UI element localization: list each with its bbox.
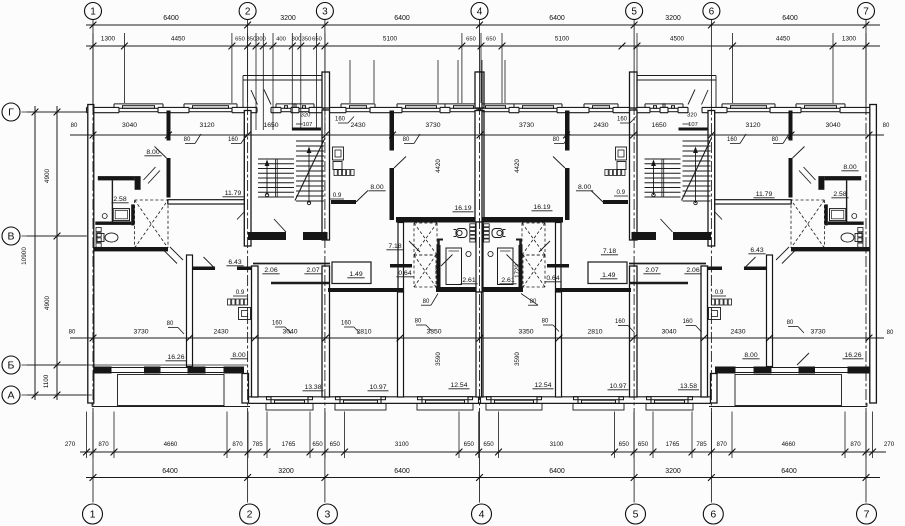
ventilation shaft stack on axis 3	[322, 72, 330, 108]
svg-text:1: 1	[90, 509, 96, 521]
bathroom inner wall centre unit	[437, 245, 441, 287]
svg-text:1300: 1300	[842, 36, 857, 43]
ventilation shaft stack on axis 4	[477, 72, 484, 108]
svg-text:1.49: 1.49	[349, 271, 362, 278]
svg-text:3590: 3590	[435, 352, 442, 366]
outer wall left side	[88, 105, 94, 404]
svg-text:160: 160	[341, 321, 352, 327]
kitchen top wall south-west	[192, 267, 215, 271]
axis circles bottom	[83, 504, 103, 524]
svg-text:870: 870	[850, 441, 861, 448]
bathroom bottom wall centre unit	[436, 287, 477, 292]
svg-text:2.61: 2.61	[501, 277, 514, 284]
svg-text:650: 650	[312, 441, 323, 448]
svg-text:3040: 3040	[122, 122, 137, 129]
ventilation shaft dashed box west unit	[135, 199, 168, 201]
svg-text:107: 107	[688, 122, 698, 128]
svg-text:4: 4	[479, 509, 485, 521]
svg-text:80: 80	[772, 137, 779, 143]
svg-text:10.97: 10.97	[369, 384, 386, 391]
svg-text:3120: 3120	[199, 122, 214, 129]
bathroom east wall	[131, 204, 134, 225]
svg-text:400: 400	[276, 37, 286, 43]
svg-text:А: А	[7, 390, 14, 402]
door kitchen south-west	[204, 257, 216, 269]
svg-text:80: 80	[883, 123, 890, 129]
stairwell interior right (translated)	[645, 124, 712, 232]
svg-text:2430: 2430	[730, 329, 745, 336]
step wall down at axis 2	[242, 374, 249, 404]
door bathroom west unit	[148, 171, 160, 184]
svg-text:3040: 3040	[661, 329, 676, 336]
svg-text:13.58: 13.58	[680, 383, 697, 390]
svg-text:12.54: 12.54	[450, 382, 467, 389]
svg-text:270: 270	[65, 441, 76, 448]
svg-text:1720: 1720	[435, 264, 442, 278]
svg-text:6.43: 6.43	[228, 259, 241, 266]
svg-text:650: 650	[638, 441, 649, 448]
svg-text:3200: 3200	[665, 468, 681, 475]
svg-text:11.79: 11.79	[225, 190, 242, 197]
wall between kitchen and living room centre unit	[390, 111, 395, 151]
svg-text:870: 870	[98, 441, 109, 448]
bathroom inner wall horizontal	[95, 222, 131, 225]
svg-text:320: 320	[687, 113, 697, 119]
svg-text:4500: 4500	[670, 36, 685, 43]
balcony door swing right unit	[797, 353, 809, 365]
corridor wall lower thin	[271, 282, 330, 285]
stairwell interior left	[258, 124, 325, 232]
svg-text:0.9: 0.9	[715, 289, 724, 296]
svg-text:2: 2	[247, 509, 253, 521]
svg-text:160: 160	[615, 319, 626, 325]
svg-text:В: В	[7, 231, 14, 243]
stair flight 1 treads	[258, 158, 294, 160]
svg-text:1765: 1765	[282, 441, 296, 448]
svg-text:2430: 2430	[213, 329, 228, 336]
stair landing wall with window 320	[292, 128, 321, 131]
svg-text:160: 160	[272, 321, 283, 327]
svg-text:13.38: 13.38	[304, 384, 321, 391]
svg-text:4450: 4450	[776, 36, 791, 43]
svg-text:1300: 1300	[101, 36, 116, 43]
axis grid vertical lines 1-7	[92, 20, 94, 105]
svg-text:4900: 4900	[44, 295, 51, 310]
svg-text:12.54: 12.54	[534, 382, 551, 389]
stair flight 2 arrow	[308, 150, 310, 203]
right edge 80 extension	[871, 134, 880, 136]
svg-text:Г: Г	[8, 107, 14, 119]
balcony slabs below south windows	[266, 404, 313, 411]
room 3120 bottom wall	[168, 200, 248, 204]
axis circles left	[2, 103, 20, 121]
stairwell south wall	[248, 232, 286, 240]
svg-text:6400: 6400	[781, 468, 797, 475]
svg-text:6400: 6400	[782, 15, 798, 22]
svg-text:3730: 3730	[425, 122, 440, 129]
svg-text:3350: 3350	[426, 329, 441, 336]
dimension row top level 2 line and ticks	[86, 45, 880, 47]
svg-text:3200: 3200	[665, 15, 681, 22]
kitchen stove centre unit	[333, 147, 344, 160]
left dimension inner line 4900/4900/1100	[56, 106, 58, 400]
svg-text:80: 80	[787, 320, 794, 326]
outer wall right side	[870, 105, 877, 404]
svg-text:3100: 3100	[550, 441, 564, 448]
svg-text:16.19: 16.19	[454, 205, 471, 212]
svg-text:2.06: 2.06	[264, 267, 277, 274]
svg-text:3: 3	[322, 7, 328, 18]
extension lines from row 2 ticks	[92, 33, 94, 103]
svg-text:107: 107	[303, 122, 313, 128]
svg-text:6400: 6400	[163, 15, 179, 22]
svg-text:8.00: 8.00	[146, 149, 159, 156]
interior dimension row A line	[70, 134, 884, 136]
svg-text:2.06: 2.06	[686, 267, 699, 274]
axis circles top	[85, 3, 102, 20]
svg-text:160: 160	[617, 117, 628, 123]
kitchen stove south-west unit	[239, 308, 251, 320]
svg-text:2.58: 2.58	[833, 191, 846, 198]
svg-text:6400: 6400	[162, 468, 178, 475]
svg-text:16.19: 16.19	[533, 204, 550, 211]
svg-text:7: 7	[864, 509, 870, 521]
corridor door swing near stair	[237, 209, 248, 220]
dimension row bottom level 3	[80, 451, 886, 453]
svg-text:8.00: 8.00	[232, 352, 245, 359]
svg-text:350: 350	[302, 37, 312, 43]
svg-text:1650: 1650	[651, 122, 666, 129]
svg-text:2.07: 2.07	[645, 267, 658, 274]
bathroom west wall centre unit	[398, 223, 404, 293]
svg-text:3590: 3590	[514, 352, 521, 366]
svg-text:Б: Б	[8, 360, 15, 372]
svg-text:3: 3	[324, 509, 330, 521]
toilet centre unit	[456, 229, 467, 238]
svg-text:870: 870	[717, 441, 728, 448]
bathtub west unit	[113, 209, 129, 221]
interior dimension row B line	[70, 337, 884, 339]
svg-text:0.9: 0.9	[236, 289, 245, 296]
svg-text:3120: 3120	[745, 122, 760, 129]
svg-text:3730: 3730	[519, 122, 534, 129]
svg-text:4660: 4660	[164, 441, 178, 448]
kitchen bottom wall centre unit	[331, 200, 356, 204]
svg-text:4900: 4900	[44, 168, 51, 183]
stair flight 2 treads and break line	[296, 140, 324, 142]
svg-text:1.49: 1.49	[602, 272, 615, 279]
bathtub centre unit	[446, 248, 462, 285]
door small wc centre	[409, 241, 420, 252]
svg-text:6400: 6400	[394, 468, 410, 475]
svg-text:80: 80	[415, 319, 422, 325]
svg-text:650: 650	[483, 441, 494, 448]
svg-text:7.18: 7.18	[603, 248, 616, 255]
svg-text:650: 650	[619, 441, 630, 448]
door kitchen centre unit	[356, 191, 368, 203]
svg-text:80: 80	[403, 137, 410, 143]
vestibule door swing	[274, 219, 286, 232]
stair flight 1 up arrow	[266, 163, 268, 195]
svg-text:2: 2	[245, 7, 251, 18]
svg-text:6: 6	[710, 509, 716, 521]
svg-text:5100: 5100	[383, 36, 398, 43]
svg-text:80: 80	[887, 330, 894, 336]
svg-text:160: 160	[335, 117, 346, 123]
ventilation shaft dashed box centre unit upper	[414, 222, 437, 224]
svg-text:8.00: 8.00	[843, 164, 856, 171]
svg-text:11.79: 11.79	[756, 191, 773, 198]
dimension row top level 1 line	[86, 24, 880, 26]
wall on axis 3 south part	[322, 266, 330, 397]
wall between room 3730 and room 2430 south-west	[187, 255, 193, 367]
svg-text:4420: 4420	[435, 159, 442, 173]
svg-text:160: 160	[683, 319, 694, 325]
svg-text:2430: 2430	[593, 122, 608, 129]
svg-text:6: 6	[709, 7, 715, 18]
bathroom block top wall centre unit	[396, 217, 477, 223]
party wall on axis 4	[477, 111, 484, 223]
door bathroom centre unit	[441, 255, 453, 267]
wall between kitchen 2430 and room 3040 south	[252, 266, 259, 397]
entrance door swing at canopy	[251, 90, 258, 105]
svg-text:4450: 4450	[171, 36, 186, 43]
svg-text:800: 800	[292, 37, 302, 43]
bathroom bottom wall west unit	[89, 247, 168, 251]
entrance canopy over stairwell	[243, 75, 329, 77]
svg-text:0.9: 0.9	[333, 192, 342, 199]
axis grid horizontal lines	[22, 111, 88, 113]
svg-text:350: 350	[247, 37, 257, 43]
svg-text:2.58: 2.58	[113, 196, 126, 203]
washbasin centre unit	[466, 251, 471, 256]
svg-text:7.18: 7.18	[388, 243, 401, 250]
small wc 0.64 top wall	[390, 264, 412, 268]
svg-text:3350: 3350	[518, 329, 533, 336]
svg-text:6400: 6400	[549, 468, 565, 475]
svg-text:10.97: 10.97	[609, 383, 626, 390]
toilet west unit	[97, 234, 104, 242]
building plan left half	[87, 72, 485, 410]
bathroom partition wall	[111, 180, 113, 221]
bathroom top wall west unit	[98, 176, 135, 180]
outer wall: top facade with window openings	[87, 106, 120, 108]
svg-text:3200: 3200	[280, 15, 296, 22]
svg-text:160: 160	[727, 137, 738, 143]
svg-text:2430: 2430	[350, 122, 365, 129]
left dimension outer line 10900	[34, 106, 36, 400]
building plan right half (mirror)	[475, 72, 873, 410]
svg-text:650: 650	[235, 37, 245, 43]
ventilation shaft dashed box centre unit lower	[414, 254, 436, 256]
svg-text:1650: 1650	[263, 122, 278, 129]
entrance porch outline bottom-left	[118, 375, 225, 406]
svg-text:1: 1	[90, 7, 96, 18]
svg-text:80: 80	[69, 330, 76, 336]
svg-text:10900: 10900	[21, 247, 28, 265]
svg-text:3100: 3100	[395, 441, 409, 448]
svg-text:8.00: 8.00	[370, 184, 383, 191]
svg-text:300: 300	[256, 37, 266, 43]
boiler squares stack centre unit	[470, 224, 476, 227]
svg-text:6400: 6400	[394, 15, 410, 22]
svg-text:16.26: 16.26	[167, 354, 184, 361]
svg-text:8.00: 8.00	[744, 352, 757, 359]
svg-text:2.61: 2.61	[462, 277, 475, 284]
boiler squares west unit	[96, 228, 101, 232]
svg-text:80: 80	[423, 299, 430, 305]
svg-text:650: 650	[486, 37, 496, 43]
svg-text:1720: 1720	[514, 264, 521, 278]
svg-text:16.26: 16.26	[844, 352, 861, 359]
stairwell west wall on axis 2	[244, 111, 251, 247]
svg-text:650: 650	[464, 441, 475, 448]
kitchen counter squares centre unit	[334, 170, 337, 176]
svg-text:3200: 3200	[278, 468, 294, 475]
svg-text:2.07: 2.07	[306, 267, 319, 274]
svg-text:270: 270	[884, 441, 895, 448]
svg-text:1100: 1100	[43, 374, 50, 388]
svg-text:4660: 4660	[782, 441, 796, 448]
hook wall next to shaft	[437, 239, 440, 250]
lower facade wall with windows (south, deep rooms)	[249, 402, 481, 404]
svg-text:650: 650	[312, 37, 322, 43]
room 2810 top wall	[328, 288, 403, 292]
svg-text:5: 5	[631, 7, 637, 18]
svg-text:5: 5	[633, 509, 639, 521]
svg-text:870: 870	[232, 441, 243, 448]
svg-text:3040: 3040	[825, 122, 840, 129]
left extension lines	[27, 111, 86, 113]
svg-text:80: 80	[167, 321, 174, 327]
corridor wall thin	[253, 263, 330, 265]
wall between rooms 3040 and 3120	[167, 111, 171, 141]
door living room centre unit	[394, 157, 406, 169]
svg-text:5100: 5100	[555, 36, 570, 43]
svg-text:0.64: 0.64	[398, 270, 411, 277]
svg-text:80: 80	[71, 123, 78, 129]
svg-text:3730: 3730	[810, 329, 825, 336]
svg-text:0.9: 0.9	[616, 189, 625, 196]
svg-text:3730: 3730	[133, 329, 148, 336]
svg-text:785: 785	[252, 441, 263, 448]
south wall of west unit on axis B with balcony rail and windows	[89, 367, 110, 374]
closet 1.49 outline	[332, 262, 371, 284]
svg-text:650: 650	[466, 37, 476, 43]
svg-text:320: 320	[301, 113, 311, 119]
svg-text:6.43: 6.43	[750, 247, 763, 254]
svg-text:80: 80	[184, 137, 191, 143]
svg-text:0.64: 0.64	[546, 275, 559, 282]
svg-text:650: 650	[330, 441, 341, 448]
svg-text:1765: 1765	[666, 441, 680, 448]
svg-text:6400: 6400	[549, 15, 565, 22]
door room 3040	[155, 147, 167, 159]
svg-text:785: 785	[696, 441, 707, 448]
door room 16.26	[164, 251, 177, 264]
svg-text:8.00: 8.00	[578, 184, 591, 191]
svg-text:4: 4	[477, 7, 483, 18]
kitchen counter squares south-west unit	[228, 299, 231, 305]
svg-text:4420: 4420	[514, 159, 521, 173]
wall between rooms 2810 and 3350	[398, 292, 404, 397]
washbasin west unit	[102, 214, 107, 219]
svg-text:160: 160	[228, 137, 239, 143]
svg-text:2810: 2810	[587, 329, 602, 336]
stairwell east wall on axis 3	[322, 110, 330, 240]
svg-text:80: 80	[553, 137, 560, 143]
svg-text:7: 7	[863, 7, 869, 18]
svg-text:80: 80	[542, 319, 549, 325]
dimension row bottom level 4	[86, 477, 880, 479]
